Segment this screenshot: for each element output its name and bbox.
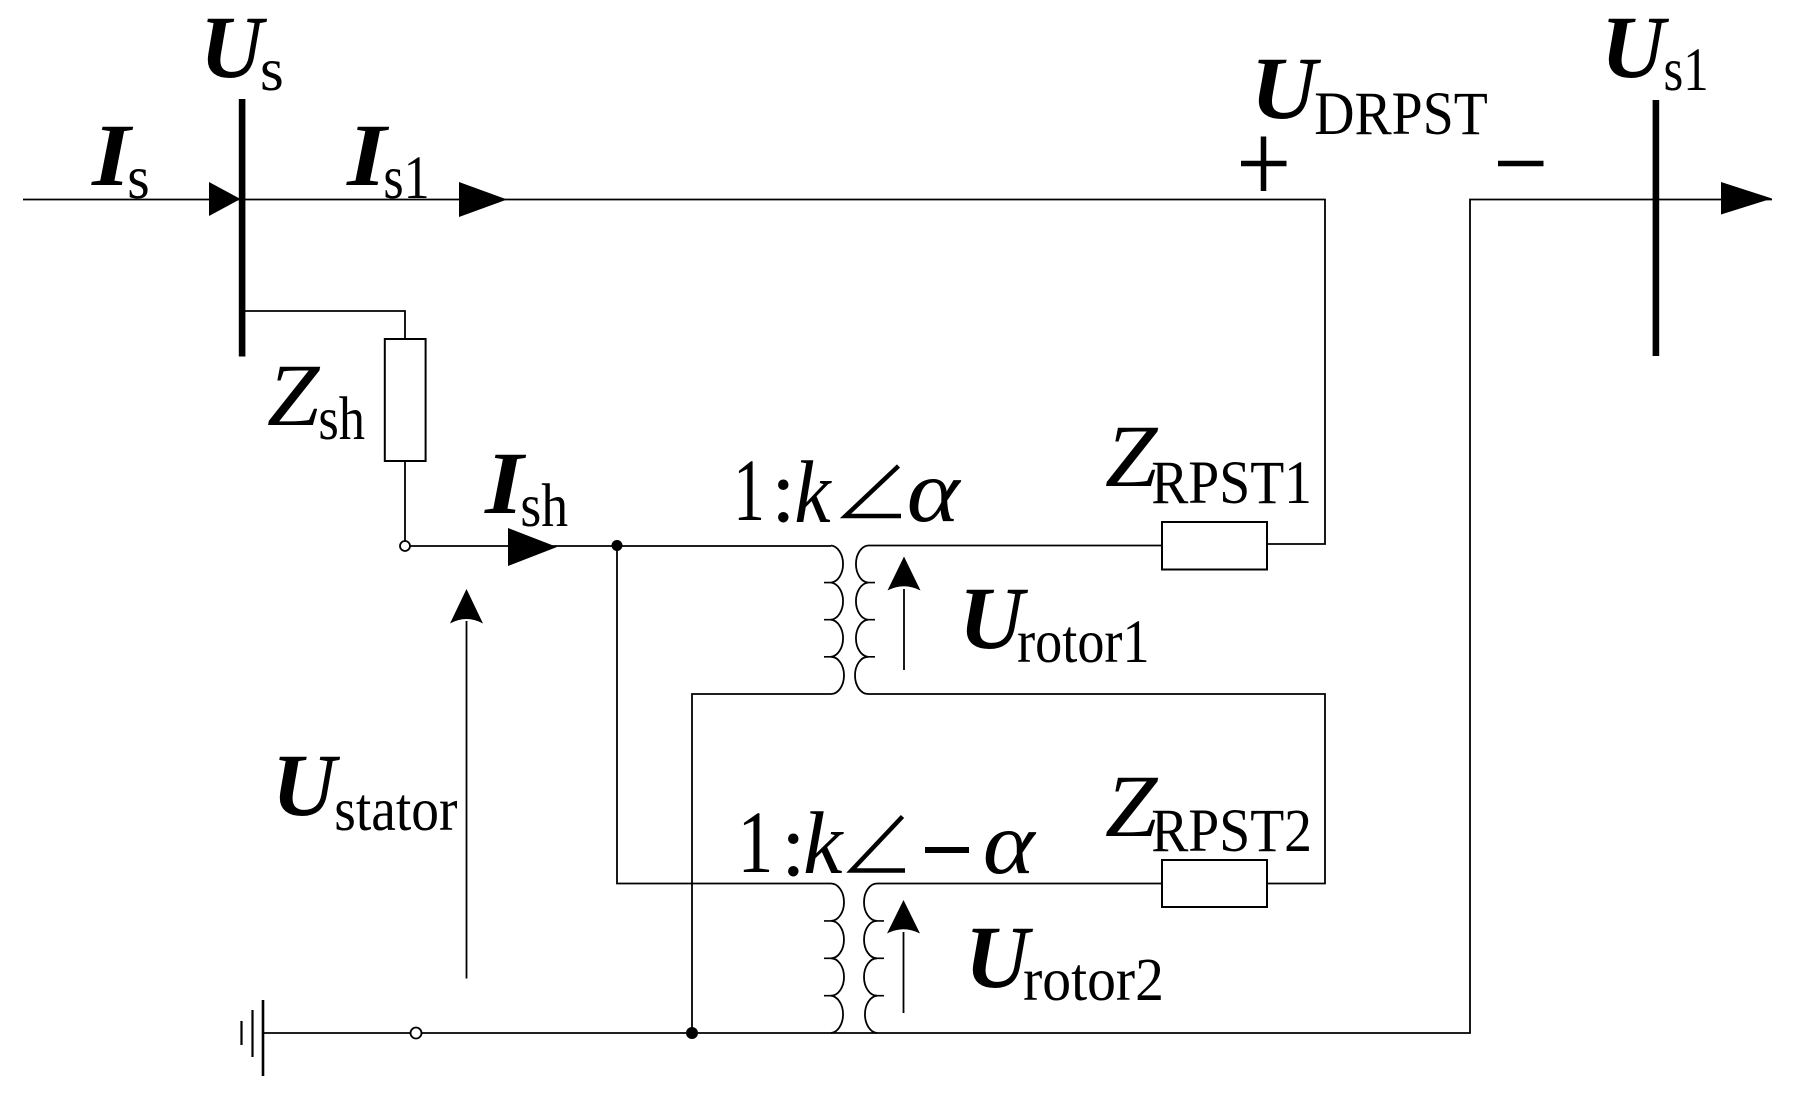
svg-text:s: s <box>127 144 149 212</box>
svg-text:sh: sh <box>318 385 365 453</box>
svg-text:rotor1: rotor1 <box>1017 609 1150 676</box>
svg-text:RPST1: RPST1 <box>1151 449 1312 517</box>
svg-text:s1: s1 <box>383 144 429 212</box>
svg-text:s: s <box>260 37 284 104</box>
svg-text:α: α <box>983 794 1037 892</box>
svg-text:U: U <box>200 0 267 97</box>
svg-text:sh: sh <box>520 473 568 540</box>
svg-text:k: k <box>803 795 844 893</box>
svg-text:U: U <box>272 737 341 835</box>
svg-text:U: U <box>1601 0 1670 97</box>
svg-text:stator: stator <box>334 776 457 844</box>
svg-text:1: 1 <box>733 440 765 539</box>
svg-text:DRPST: DRPST <box>1314 80 1488 148</box>
svg-text:Z: Z <box>267 345 321 444</box>
svg-text:k: k <box>794 443 832 542</box>
svg-text:s1: s1 <box>1664 37 1709 104</box>
svg-text:α: α <box>907 441 962 540</box>
svg-text:rotor2: rotor2 <box>1023 946 1164 1014</box>
svg-text:U: U <box>1251 38 1322 137</box>
svg-text:1: 1 <box>738 794 774 892</box>
svg-text:RPST2: RPST2 <box>1151 797 1312 865</box>
svg-text::: : <box>771 443 796 541</box>
